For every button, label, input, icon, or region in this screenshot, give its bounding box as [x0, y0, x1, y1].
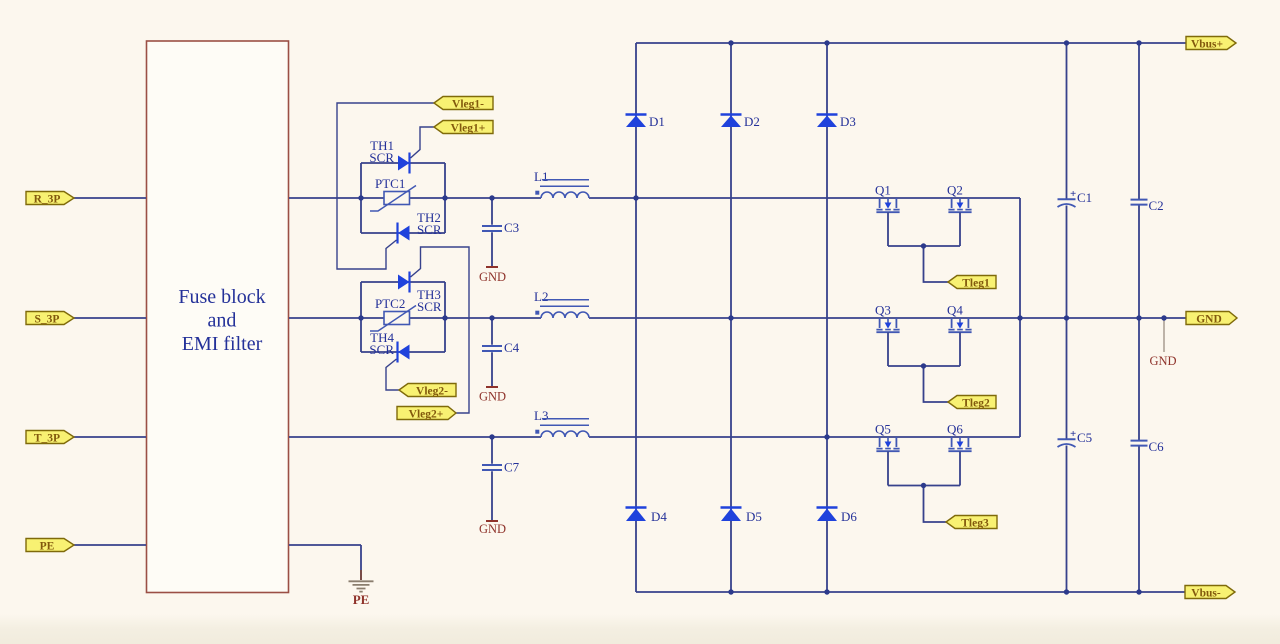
thyristor TH2 SCR: [398, 210, 442, 244]
svg-text:D5: D5: [746, 509, 762, 524]
svg-text:C3: C3: [504, 220, 519, 235]
svg-text:GND: GND: [1149, 354, 1176, 368]
thyristor TH4 SCR: [369, 330, 409, 363]
port Vbus+: [1186, 37, 1236, 51]
wire TH2 gate to Vleg1-: [337, 103, 434, 269]
thyristor TH3 SCR: [398, 272, 442, 315]
transistor Q4 MOSFET: [947, 303, 972, 333]
wire SCR group 1 loop: [361, 163, 445, 233]
svg-text:D3: D3: [840, 114, 856, 129]
wire Q5/Q6 sources to Tleg3: [888, 452, 960, 523]
svg-text:PE: PE: [40, 541, 55, 553]
svg-text:D2: D2: [744, 114, 760, 129]
port Tleg1: [948, 276, 996, 290]
wire TH3 gate to Vleg2+: [411, 247, 470, 413]
svg-text:D6: D6: [841, 509, 857, 524]
port Tleg3: [946, 516, 997, 530]
ground GND (below C4): [479, 387, 506, 404]
svg-text:C2: C2: [1149, 198, 1164, 213]
diode D5: [721, 508, 762, 525]
capacitor C3: [482, 198, 519, 266]
svg-text:PTC2: PTC2: [375, 296, 405, 311]
svg-text:PTC1: PTC1: [375, 176, 405, 191]
capacitor C1 (polarized): [1058, 188, 1093, 207]
port Tleg2: [948, 396, 996, 410]
svg-text:and: and: [208, 310, 237, 332]
port S_3P: [26, 312, 74, 326]
wire TH1 gate to Vleg1+: [411, 127, 435, 158]
wire Q1/Q2 sources to Tleg1: [888, 213, 960, 283]
port Vleg2+: [397, 407, 456, 421]
port Vbus-: [1185, 586, 1235, 600]
capacitor C5 (polarized): [1058, 428, 1093, 447]
svg-text:T_3P: T_3P: [34, 433, 60, 445]
port R_3P: [26, 192, 74, 206]
ground PE earth symbol: [349, 570, 374, 607]
svg-text:Q3: Q3: [875, 303, 891, 318]
wire S phase / GND net: [74, 317, 1186, 319]
inductor L1: [534, 169, 589, 198]
transistor Q5 MOSFET: [875, 422, 900, 452]
svg-text:SCR: SCR: [369, 150, 394, 165]
wire SCR group 2 loop: [361, 282, 445, 352]
svg-text:GND: GND: [479, 390, 506, 404]
wire Vbus+ top rail: [636, 42, 1186, 44]
svg-text:Q2: Q2: [947, 183, 963, 198]
svg-text:Vleg1-: Vleg1-: [452, 99, 484, 111]
svg-text:SCR: SCR: [417, 222, 442, 237]
capacitor C6: [1131, 439, 1165, 454]
svg-text:C6: C6: [1149, 439, 1165, 454]
svg-text:Q5: Q5: [875, 422, 891, 437]
svg-text:PE: PE: [353, 592, 370, 607]
svg-text:C4: C4: [504, 340, 520, 355]
svg-text:L2: L2: [534, 289, 548, 304]
thermistor PTC2: [370, 296, 416, 331]
transistor Q1 MOSFET: [875, 183, 900, 213]
wire bridge leg 1 (D1/D4 column): [635, 43, 637, 592]
svg-text:Vleg2+: Vleg2+: [409, 409, 444, 421]
svg-text:SCR: SCR: [417, 299, 442, 314]
diode D3: [817, 114, 856, 129]
diode D2: [721, 114, 760, 129]
wire Vbus- bottom rail: [636, 591, 1185, 593]
port Vleg1+: [434, 121, 493, 135]
svg-text:L3: L3: [534, 408, 548, 423]
svg-text:Tleg1: Tleg1: [962, 278, 990, 290]
svg-text:GND: GND: [479, 270, 506, 284]
svg-text:Vbus+: Vbus+: [1191, 39, 1223, 51]
transistor Q2 MOSFET: [947, 183, 972, 213]
ground GND (below C7): [479, 521, 506, 536]
svg-text:EMI filter: EMI filter: [182, 333, 263, 355]
svg-text:Q6: Q6: [947, 422, 963, 437]
svg-text:Vleg2-: Vleg2-: [416, 386, 448, 398]
svg-text:Vleg1+: Vleg1+: [451, 123, 486, 135]
wire Q3/Q4 sources to Tleg2: [888, 333, 960, 403]
diode D6: [817, 508, 858, 525]
capacitor C2: [1131, 198, 1164, 213]
capacitor C4: [482, 318, 520, 386]
fuse block U? box: [147, 41, 289, 593]
wire PE: [74, 545, 361, 580]
capacitor C7: [482, 437, 520, 520]
svg-text:Fuse block: Fuse block: [178, 286, 265, 308]
svg-text:C7: C7: [504, 460, 520, 475]
wire TH4 gate to Vleg2-: [386, 359, 399, 390]
ground GND power port (right): [1149, 318, 1176, 368]
thyristor TH1 SCR: [369, 138, 409, 174]
svg-text:Q4: Q4: [947, 303, 963, 318]
port Vleg2-: [399, 384, 456, 398]
svg-text:GND: GND: [479, 522, 506, 536]
svg-text:Tleg3: Tleg3: [961, 518, 989, 530]
svg-text:L1: L1: [534, 169, 548, 184]
svg-text:S_3P: S_3P: [35, 314, 60, 326]
inductor L2: [534, 289, 589, 318]
svg-text:SCR: SCR: [369, 342, 394, 357]
transistor Q3 MOSFET: [875, 303, 900, 333]
svg-text:+: +: [1070, 428, 1076, 440]
svg-text:D4: D4: [651, 509, 667, 524]
port PE: [26, 539, 74, 553]
port Vleg1-: [434, 97, 493, 111]
wire C2/C6 column: [1138, 43, 1140, 592]
wire MOSFET right return rail: [1019, 198, 1021, 437]
svg-text:C1: C1: [1077, 190, 1092, 205]
diode D4: [626, 508, 668, 525]
svg-text:R_3P: R_3P: [34, 194, 61, 206]
svg-text:+: +: [1070, 188, 1076, 200]
inductor L3: [534, 408, 589, 437]
port GND: [1186, 312, 1237, 326]
wire R phase: [74, 197, 1020, 199]
svg-text:GND: GND: [1196, 314, 1222, 326]
ground GND (below C3): [479, 267, 506, 284]
thermistor PTC1: [370, 176, 416, 211]
svg-text:Tleg2: Tleg2: [962, 398, 990, 410]
wire T phase: [74, 436, 1020, 438]
wire C1/C5 column: [1066, 43, 1068, 592]
diode D1: [626, 114, 665, 129]
svg-text:D1: D1: [649, 114, 665, 129]
svg-text:Vbus-: Vbus-: [1191, 588, 1221, 600]
port T_3P: [26, 431, 74, 445]
svg-text:Q1: Q1: [875, 183, 891, 198]
wire bridge leg 3 (D3/D6 column): [826, 43, 828, 592]
transistor Q6 MOSFET: [947, 422, 972, 452]
wire bridge leg 2 (D2/D5 column): [730, 43, 732, 592]
svg-text:C5: C5: [1077, 430, 1092, 445]
